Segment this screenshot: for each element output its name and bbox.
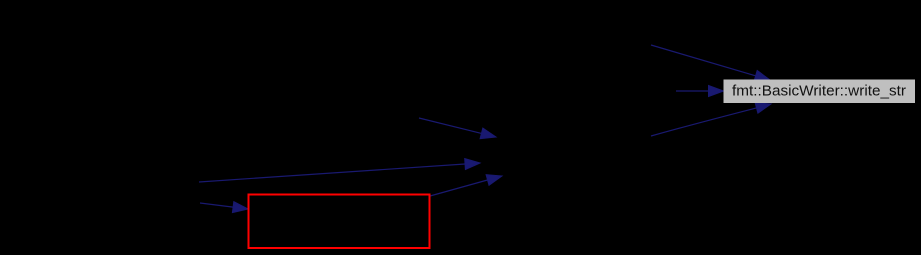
edge E7: caller (bottom) -> fmt::BasicWriter::write_str <box>651 103 771 136</box>
edge E6: caller (middle) -> fmt::BasicWriter::write_str <box>676 86 724 97</box>
node: fmt::BasicWriter::write_str (current, gray) <box>724 80 916 104</box>
edge E4: red node -> middle node <box>430 175 502 196</box>
edge E3: left node -> red node <box>200 202 248 213</box>
edge E2: left node -> middle node <box>199 159 480 183</box>
svg-text:fmt::BasicWriter::write_str: fmt::BasicWriter::write_str <box>732 84 906 100</box>
node: red-bordered box (truncated node) <box>249 195 430 249</box>
edge E5: caller (top) -> fmt::BasicWriter::write_str <box>651 45 770 81</box>
edge E1: upper-left node -> middle node <box>419 118 496 139</box>
